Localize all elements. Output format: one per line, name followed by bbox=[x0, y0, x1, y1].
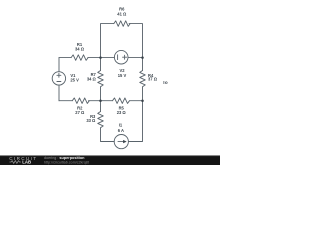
I1 arrow bbox=[118, 141, 123, 143]
resistor R3 zigzag bbox=[98, 112, 104, 128]
junction dot node B (right rail / main wire) bbox=[141, 56, 144, 59]
svg-text:http://circuitlab.com/c2krq8t: http://circuitlab.com/c2krq8t bbox=[44, 160, 89, 164]
V2 plus sign bbox=[123, 55, 127, 59]
voltage source V1 circle bbox=[52, 72, 65, 85]
svg-text:33 Ω: 33 Ω bbox=[86, 118, 96, 123]
resistor R4 zigzag bbox=[140, 71, 146, 87]
I1 arrowhead bbox=[123, 140, 127, 143]
V1 minus sign bbox=[57, 81, 61, 83]
wire main middle (R1 to V2 left) bbox=[88, 57, 115, 59]
wire right rail R4 bottom lead bbox=[142, 87, 144, 101]
junction dot node A (center rail / main wire) bbox=[99, 56, 102, 59]
svg-text:LAB: LAB bbox=[22, 160, 31, 165]
junction dot node C (center rail / mid wire) bbox=[99, 99, 102, 102]
resistor R6 zigzag bbox=[114, 21, 130, 27]
wire right rail R4 top lead bbox=[142, 58, 144, 71]
V1 plus sign bbox=[57, 73, 61, 77]
wire V1 bottom lead bbox=[58, 85, 60, 101]
svg-text:27 Ω: 27 Ω bbox=[75, 110, 85, 115]
svg-text:34 Ω: 34 Ω bbox=[75, 46, 85, 51]
svg-text:doering : superposition: doering : superposition bbox=[44, 156, 85, 160]
wire main right (V2 right to right rail) bbox=[128, 57, 143, 59]
wire main left (V1 top corner to R1) bbox=[59, 57, 71, 59]
svg-text:Io: Io bbox=[163, 80, 168, 85]
resistor R7 zigzag bbox=[98, 71, 104, 87]
svg-text:25 V: 25 V bbox=[70, 77, 79, 82]
wire center rail R7 top lead bbox=[100, 58, 102, 71]
wire top loop right (R6 right to right rail) bbox=[129, 24, 142, 58]
wire R2 to center rail bbox=[89, 100, 101, 102]
wire center rail R3 bottom lead to bottom loop bbox=[101, 128, 115, 142]
wire center rail R3 top lead bbox=[100, 101, 102, 112]
resistor R5 zigzag bbox=[113, 98, 130, 104]
current source I1 circle bbox=[114, 135, 128, 149]
wire mid-right (center rail to R5) bbox=[101, 100, 113, 102]
junction dot node D (right rail / mid wire) bbox=[141, 99, 144, 102]
svg-text:6 A: 6 A bbox=[118, 128, 124, 133]
svg-text:37 Ω: 37 Ω bbox=[148, 77, 158, 82]
voltage source V2 circle bbox=[114, 50, 128, 64]
wire R5 to right rail bbox=[130, 100, 143, 102]
V2 minus bar (rotated) bbox=[117, 55, 119, 60]
wire mid-left (V1 corner to R2) bbox=[59, 100, 72, 102]
wire V1 top lead bbox=[58, 58, 60, 72]
CircuitLab logo zigzag bbox=[10, 161, 21, 164]
svg-text:15 V: 15 V bbox=[118, 73, 127, 78]
wire top loop left (center rail top to R6 left) bbox=[101, 24, 114, 58]
wire center rail R7 bottom lead bbox=[100, 87, 102, 101]
resistor R1 zigzag bbox=[71, 55, 88, 61]
svg-text:34 Ω: 34 Ω bbox=[87, 77, 97, 82]
wire bottom loop right (I1 to right rail) bbox=[128, 101, 142, 142]
svg-text:23 Ω: 23 Ω bbox=[117, 110, 127, 115]
svg-text:41 Ω: 41 Ω bbox=[117, 11, 127, 16]
watermark bar background bbox=[0, 155, 220, 165]
resistor R2 zigzag bbox=[72, 98, 89, 104]
